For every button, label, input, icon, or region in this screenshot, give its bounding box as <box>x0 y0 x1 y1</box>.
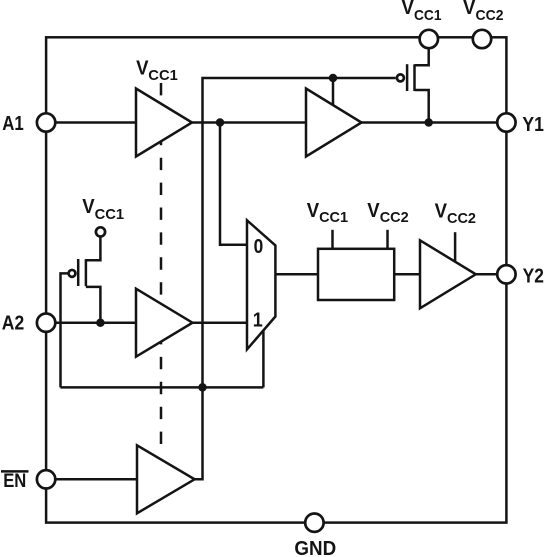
stub level-shifter VCC2 <box>386 230 389 250</box>
buffer U5 (Y2 output buffer) <box>420 240 476 308</box>
junction node EN/buffer stub <box>329 74 338 83</box>
pin EN <box>37 470 55 488</box>
svg-text:EN: EN <box>3 470 26 492</box>
svg-text:CC1: CC1 <box>95 206 125 223</box>
buffer U4 (EN input buffer) <box>137 445 195 513</box>
pin A2 <box>37 314 55 332</box>
wire left PMOS Q1 drain lead to A2 net <box>86 287 101 323</box>
transistor Q1 channel bar <box>85 259 88 286</box>
wire EN input <box>46 478 195 481</box>
wire Y2 row (mux output - level shifter - buffer - Y2) <box>275 273 506 276</box>
wire A2 row (A2 to mux input 1) <box>46 321 247 324</box>
junction node A2/PMOS drain <box>96 318 105 327</box>
svg-text:V: V <box>463 0 476 19</box>
svg-text:CC1: CC1 <box>414 7 442 24</box>
svg-text:V: V <box>136 56 149 79</box>
dashed supply-domain boundary line <box>160 83 163 450</box>
svg-text:V: V <box>435 200 448 223</box>
wire EN net: buffer output up and across to PMOS gate <box>195 78 396 479</box>
svg-text:CC2: CC2 <box>380 209 409 226</box>
transistor Q2 channel bar <box>413 64 416 91</box>
wire left PMOS gate branch <box>61 273 69 387</box>
wire A1 row (A1 to Y1) <box>46 121 506 124</box>
wire bottom EN bus <box>60 386 263 389</box>
wire mux select <box>262 330 265 387</box>
transistor Q1 gate bubble <box>69 270 76 277</box>
transistor Q2 gate bubble <box>397 74 404 81</box>
junction node EN bus <box>198 383 207 392</box>
mux U6 <box>247 220 275 349</box>
stub Y2 buffer VCC2 <box>454 232 457 262</box>
svg-text:0: 0 <box>254 236 264 258</box>
junction node Y1/PMOS drain <box>424 118 433 127</box>
buffer U1 (A1 input buffer) <box>136 89 192 157</box>
stub level-shifter VCC1 <box>331 230 334 250</box>
svg-text:V: V <box>82 195 95 218</box>
wire mux input 0 branch from A1 net <box>220 123 248 245</box>
buffer U3 (A2 input buffer) <box>136 289 193 357</box>
level shifter U7 <box>318 249 394 300</box>
pin Y1 <box>497 113 515 131</box>
wire left PMOS Q1 source lead to VCC1 terminal <box>86 238 101 261</box>
buffer U2 (Y1 output buffer) <box>306 89 362 157</box>
svg-text:V: V <box>307 199 320 222</box>
transistor Q2 gate bar (top-right PMOS) <box>406 64 409 91</box>
svg-text:CC1: CC1 <box>148 67 178 84</box>
svg-text:Y1: Y1 <box>522 113 544 136</box>
junction node A1/mux0 <box>216 118 225 127</box>
pin Y2 <box>497 265 515 283</box>
wire PMOS Q2 drain lead to Y1 net <box>415 90 429 123</box>
transistor Q1 gate bar (left PMOS) <box>77 259 80 286</box>
svg-text:GND: GND <box>294 537 336 557</box>
svg-text:A2: A2 <box>2 311 24 334</box>
svg-text:CC2: CC2 <box>476 7 504 24</box>
pin VCC1 <box>420 30 438 48</box>
pin VCC2 <box>473 30 491 48</box>
terminal circle VCC1 (left PMOS source) <box>96 227 105 236</box>
stub Y1 buffer enable from EN net <box>332 78 335 106</box>
wire PMOS Q2 source lead to VCC1 pin <box>415 49 429 66</box>
svg-text:A1: A1 <box>2 112 24 135</box>
svg-text:Y2: Y2 <box>523 265 544 288</box>
svg-text:V: V <box>402 0 415 19</box>
svg-text:CC2: CC2 <box>447 210 476 227</box>
pin A1 <box>37 113 55 131</box>
svg-text:1: 1 <box>253 309 263 331</box>
svg-text:V: V <box>367 199 380 222</box>
IC boundary box <box>46 37 506 522</box>
pin GND <box>305 514 323 532</box>
svg-text:CC1: CC1 <box>319 209 348 226</box>
